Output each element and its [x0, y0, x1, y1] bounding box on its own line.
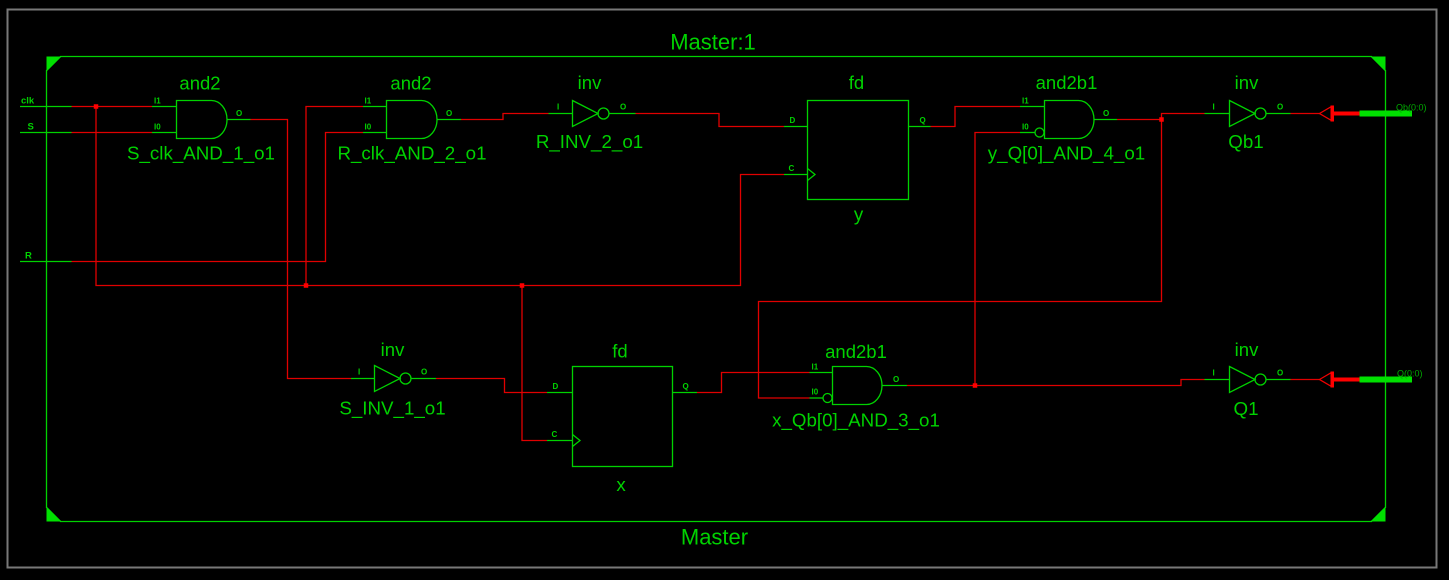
corner marker bottom-left — [47, 507, 62, 522]
svg-text:fd: fd — [849, 72, 864, 93]
fd U4 y — [784, 72, 931, 225]
port clk — [20, 96, 72, 107]
svg-text:Qb1: Qb1 — [1228, 131, 1263, 152]
svg-text:and2: and2 — [179, 73, 220, 94]
output arrow Q — [1320, 372, 1360, 388]
wire net x_Qb[0]_AND_3_o1 branch to AND4.I0 — [975, 133, 1020, 386]
svg-text:R_clk_AND_2_o1: R_clk_AND_2_o1 — [337, 143, 486, 165]
svg-text:I: I — [557, 103, 559, 112]
svg-text:Master:1: Master:1 — [670, 30, 756, 55]
svg-text:inv: inv — [1235, 339, 1259, 360]
inv U3 R_INV_2_o1 — [536, 72, 643, 153]
svg-text:and2b1: and2b1 — [1036, 72, 1098, 93]
svg-text:O: O — [446, 109, 452, 118]
svg-text:I1: I1 — [154, 97, 161, 106]
wire net clk: stub to AND1.I1 — [72, 106, 153, 108]
svg-text:Qb(0:0): Qb(0:0) — [1396, 103, 1427, 113]
svg-text:O: O — [620, 103, 626, 112]
svg-text:R: R — [25, 251, 32, 262]
svg-text:Q: Q — [920, 116, 926, 125]
svg-text:x_Qb[0]_AND_3_o1: x_Qb[0]_AND_3_o1 — [772, 410, 940, 432]
corner marker top-right — [1371, 57, 1386, 72]
wire net S to AND1.I0 — [72, 132, 153, 134]
wire net x_Qb[0]_AND_3_o1 to Q1 input — [907, 380, 1205, 386]
svg-text:I: I — [1213, 369, 1215, 378]
junction clk C — [520, 283, 525, 288]
svg-text:O: O — [893, 375, 899, 384]
svg-text:O: O — [1103, 109, 1109, 118]
and2 U2 R_clk_AND_2_o1 — [337, 73, 486, 165]
output arrow Qb — [1320, 106, 1360, 122]
wire net clk: branch to AND2.I1 — [306, 107, 363, 286]
svg-text:I1: I1 — [1022, 97, 1029, 106]
wire net Q1 output — [1291, 379, 1320, 381]
inv U10 Q1 — [1205, 339, 1291, 419]
wire net clk: branch to fd x C — [522, 286, 547, 441]
svg-text:x: x — [616, 474, 626, 495]
inv U6 Qb1 — [1205, 72, 1291, 152]
svg-text:inv: inv — [578, 72, 602, 93]
corner marker bottom-right — [1371, 507, 1386, 522]
svg-text:I0: I0 — [812, 388, 819, 397]
svg-text:I: I — [1213, 103, 1215, 112]
svg-text:C: C — [552, 430, 558, 439]
svg-text:O: O — [236, 109, 242, 118]
wire net R_INV_2_o1 to fd y D — [636, 114, 785, 127]
schematic boundary Master — [47, 57, 1386, 522]
junction net x_Qb[0]_AND_3_o1 — [973, 383, 978, 388]
svg-text:S_INV_1_o1: S_INV_1_o1 — [339, 398, 445, 420]
wire net y_Q[0]_AND_4_o1 branch to AND3.I0 — [759, 120, 1162, 399]
svg-text:O: O — [1277, 369, 1283, 378]
svg-text:y_Q[0]_AND_4_o1: y_Q[0]_AND_4_o1 — [988, 143, 1145, 165]
svg-text:I0: I0 — [365, 123, 372, 132]
bus stub Qb(0:0) — [1360, 111, 1413, 117]
svg-text:O: O — [421, 368, 427, 377]
svg-text:O: O — [1277, 103, 1283, 112]
svg-text:I0: I0 — [154, 123, 161, 132]
svg-text:I1: I1 — [812, 363, 819, 372]
svg-text:D: D — [553, 382, 559, 391]
svg-text:and2b1: and2b1 — [825, 341, 887, 362]
bus stub Q(0:0) — [1360, 377, 1413, 383]
junction clk A — [94, 104, 99, 109]
svg-text:inv: inv — [1235, 72, 1259, 93]
svg-text:Master: Master — [681, 525, 748, 550]
svg-text:R_INV_2_o1: R_INV_2_o1 — [536, 131, 643, 153]
svg-text:fd: fd — [612, 341, 627, 362]
wire net y_Q[0]_AND_4_o1 to Qb1 input — [1117, 114, 1205, 120]
svg-text:clk: clk — [21, 96, 35, 107]
and2 U1 S_clk_AND_1_o1 — [127, 73, 275, 165]
svg-text:C: C — [789, 164, 795, 173]
svg-text:y: y — [854, 204, 864, 225]
and2b1 U5 y_Q[0]_AND_4_o1 — [988, 72, 1145, 165]
inv U7 S_INV_1_o1 — [339, 339, 445, 420]
fd U8 x — [547, 341, 697, 496]
wire net Qb1 output — [1291, 113, 1320, 115]
wire net S_clk_AND_1_o1 to S_INV input — [251, 120, 352, 379]
corner marker top-left — [47, 57, 62, 72]
svg-text:D: D — [790, 116, 796, 125]
wire net clk: vertical drop and bus to fd y C — [96, 107, 784, 286]
junction clk B — [304, 283, 309, 288]
wire net S_INV_1_o1 to fd x D — [436, 379, 547, 393]
svg-text:and2: and2 — [390, 73, 431, 94]
wire net y (fd y Q) to AND4.I1 — [931, 107, 1021, 127]
svg-text:I0: I0 — [1022, 123, 1029, 132]
svg-text:Q1: Q1 — [1233, 398, 1258, 419]
svg-text:Q: Q — [683, 382, 689, 391]
wire net R_clk_AND_2_o1 to R_INV input — [461, 114, 549, 120]
svg-text:Q(0:0): Q(0:0) — [1397, 369, 1423, 379]
svg-text:inv: inv — [381, 339, 405, 360]
wire net x (fd x Q) to AND3.I1 — [697, 373, 810, 393]
svg-text:S: S — [28, 122, 34, 133]
and2b1 U9 x_Qb[0]_AND_3_o1 — [772, 341, 940, 432]
wire net R to AND2.I0 — [72, 133, 364, 262]
port R — [20, 251, 72, 262]
svg-text:S_clk_AND_1_o1: S_clk_AND_1_o1 — [127, 143, 275, 165]
junction net y_Q[0]_AND_4_o1 — [1159, 117, 1164, 122]
svg-text:I1: I1 — [365, 97, 372, 106]
svg-text:I: I — [358, 368, 360, 377]
port S — [20, 122, 72, 133]
